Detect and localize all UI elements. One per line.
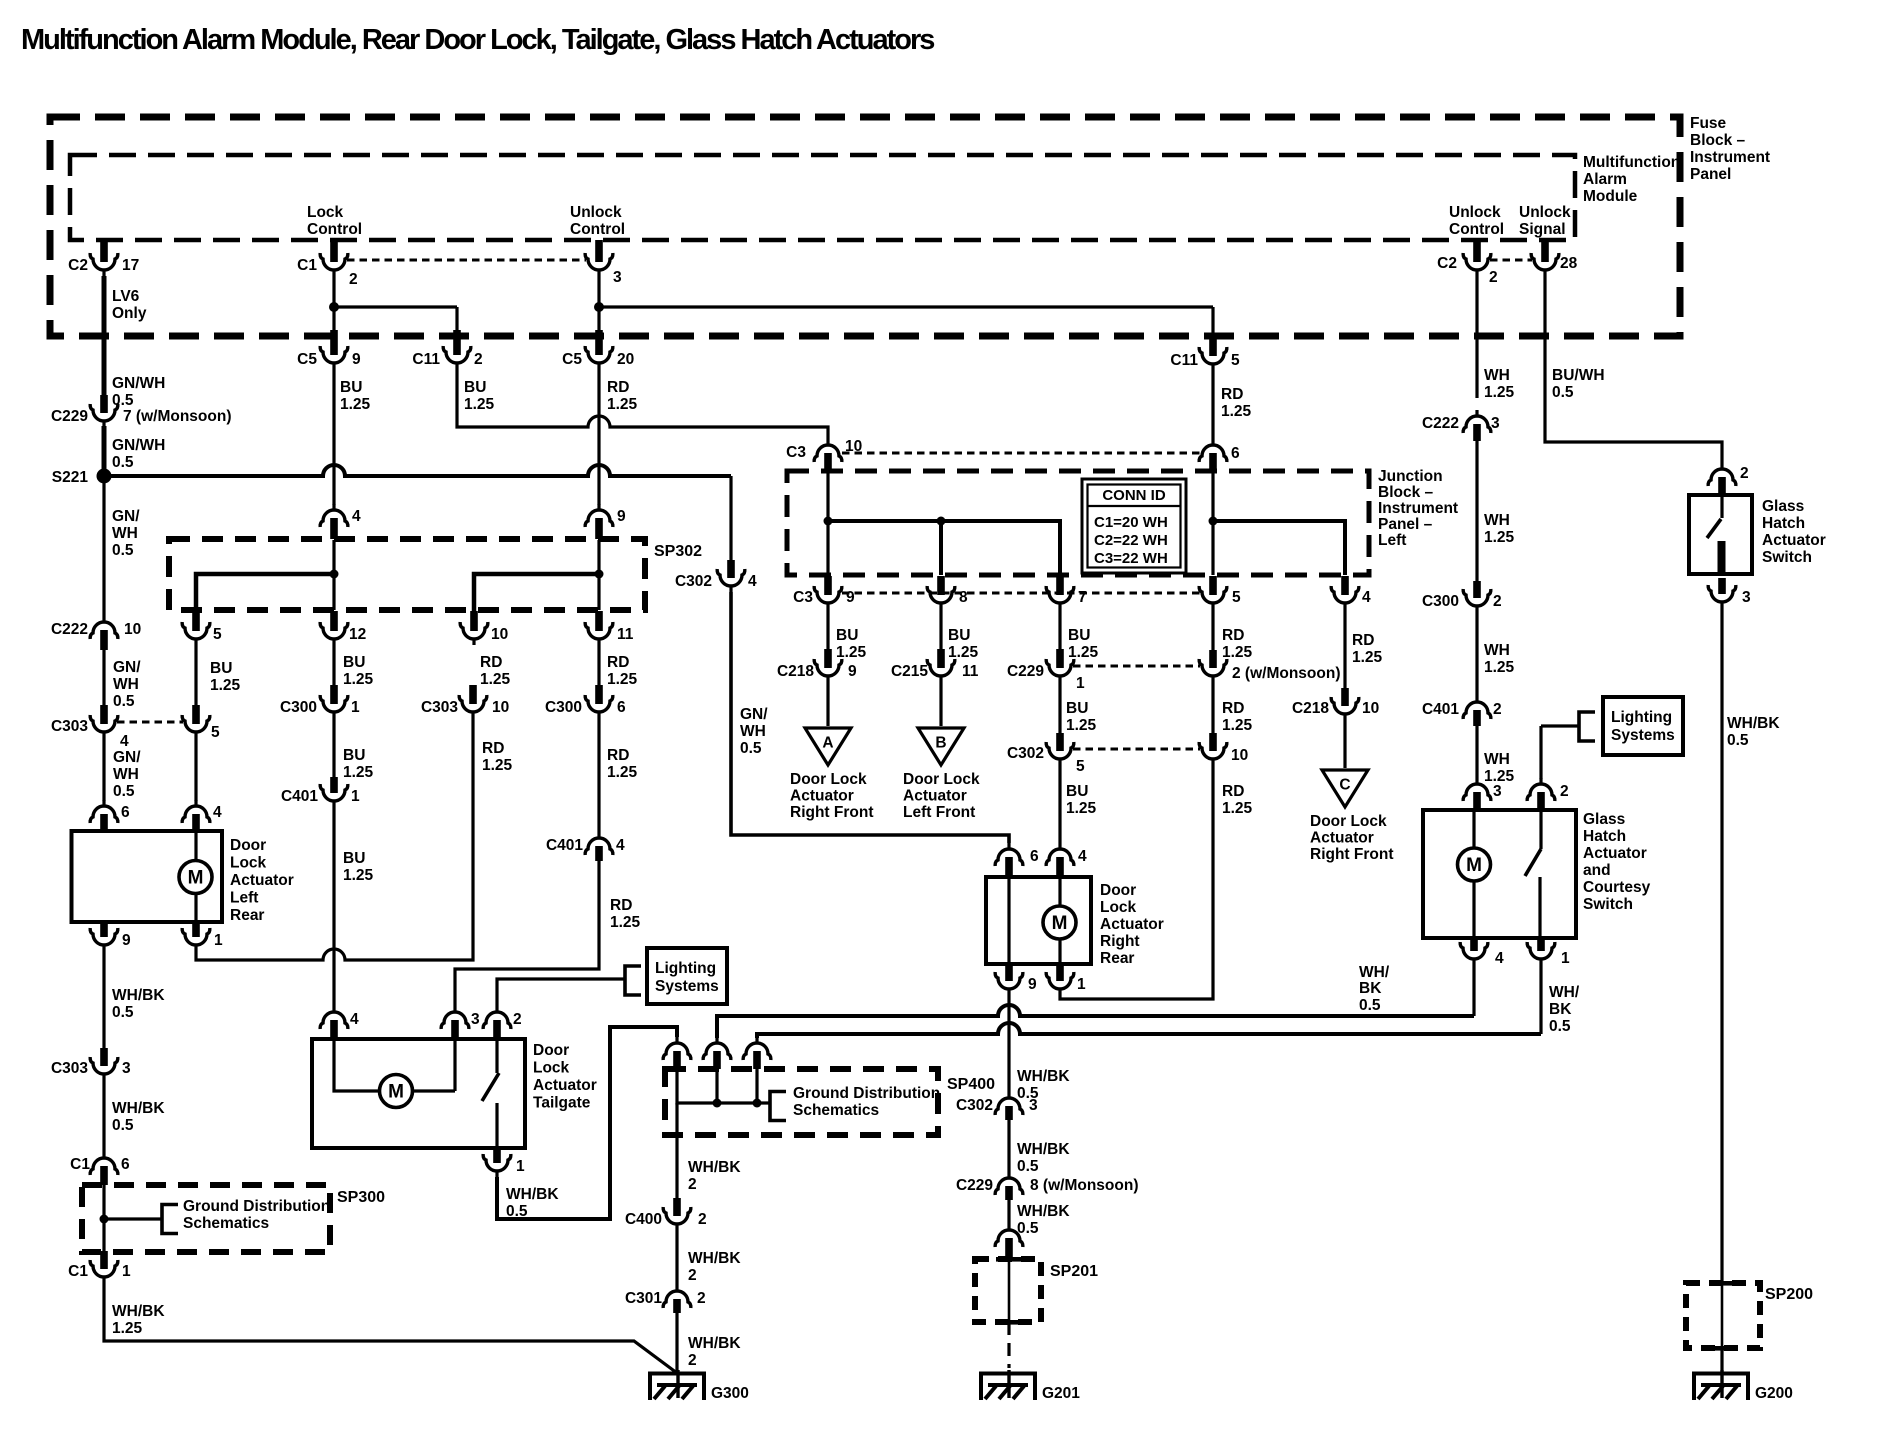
svg-text:Instrument: Instrument — [1378, 500, 1458, 517]
svg-text:9: 9 — [617, 508, 626, 525]
svg-text:RD: RD — [1352, 632, 1374, 649]
svg-text:G300: G300 — [711, 1385, 749, 1402]
svg-text:4: 4 — [350, 1011, 359, 1028]
svg-text:1.25: 1.25 — [343, 671, 374, 688]
svg-text:5: 5 — [211, 724, 220, 741]
svg-text:4: 4 — [748, 573, 757, 590]
svg-text:6: 6 — [121, 1156, 130, 1173]
svg-text:BU: BU — [210, 660, 232, 677]
svg-text:GN/: GN/ — [112, 508, 140, 525]
svg-text:G201: G201 — [1042, 1385, 1080, 1402]
svg-text:C218: C218 — [1292, 700, 1329, 717]
svg-text:1: 1 — [351, 788, 360, 805]
svg-text:0.5: 0.5 — [113, 693, 135, 710]
svg-text:S221: S221 — [52, 469, 89, 486]
svg-text:BU: BU — [340, 379, 362, 396]
svg-text:C302: C302 — [675, 573, 712, 590]
svg-text:Left: Left — [230, 890, 258, 907]
svg-text:10: 10 — [1231, 747, 1248, 764]
svg-text:4: 4 — [213, 804, 222, 821]
svg-text:WH/BK: WH/BK — [1017, 1203, 1070, 1220]
svg-text:Door: Door — [1100, 882, 1136, 899]
svg-text:WH/BK: WH/BK — [1017, 1141, 1070, 1158]
svg-text:Door Lock: Door Lock — [903, 771, 980, 788]
svg-text:WH: WH — [113, 676, 139, 693]
svg-text:9: 9 — [122, 932, 131, 949]
svg-text:C301: C301 — [625, 1290, 662, 1307]
svg-text:1: 1 — [1561, 950, 1570, 967]
svg-text:Signal: Signal — [1519, 221, 1566, 238]
svg-text:RD: RD — [482, 740, 504, 757]
svg-text:GN/WH: GN/WH — [112, 437, 165, 454]
svg-text:7 (w/Monsoon): 7 (w/Monsoon) — [123, 408, 232, 425]
svg-text:Actuator: Actuator — [230, 872, 294, 889]
svg-text:0.5: 0.5 — [1017, 1158, 1039, 1175]
svg-text:Right: Right — [1100, 933, 1140, 950]
svg-text:C300: C300 — [545, 699, 582, 716]
svg-text:3: 3 — [122, 1060, 131, 1077]
svg-text:5: 5 — [1232, 589, 1241, 606]
svg-text:2: 2 — [688, 1267, 697, 1284]
svg-text:Actuator: Actuator — [1100, 916, 1164, 933]
svg-text:C5: C5 — [297, 351, 317, 368]
svg-text:2: 2 — [1740, 465, 1749, 482]
svg-text:4: 4 — [1362, 589, 1371, 606]
svg-text:Door Lock: Door Lock — [1310, 813, 1387, 830]
svg-text:1.25: 1.25 — [1484, 529, 1515, 546]
svg-text:11: 11 — [962, 663, 979, 680]
svg-text:C2=22 WH: C2=22 WH — [1094, 532, 1168, 549]
svg-text:C303: C303 — [51, 718, 88, 735]
svg-text:BU: BU — [343, 747, 365, 764]
svg-text:7: 7 — [1078, 589, 1087, 606]
svg-text:C300: C300 — [280, 699, 317, 716]
svg-text:1.25: 1.25 — [607, 671, 638, 688]
svg-text:Junction: Junction — [1378, 468, 1443, 485]
svg-text:Actuator: Actuator — [1583, 845, 1647, 862]
svg-text:0.5: 0.5 — [1552, 384, 1574, 401]
svg-text:C1: C1 — [70, 1156, 90, 1173]
svg-text:C229: C229 — [51, 408, 88, 425]
svg-text:C302: C302 — [956, 1097, 993, 1114]
svg-text:BU: BU — [1066, 700, 1088, 717]
svg-text:1.25: 1.25 — [836, 644, 867, 661]
svg-text:WH/BK: WH/BK — [112, 987, 165, 1004]
svg-text:C300: C300 — [1422, 593, 1459, 610]
svg-text:C215: C215 — [891, 663, 928, 680]
svg-text:2: 2 — [513, 1011, 522, 1028]
svg-text:C229: C229 — [956, 1177, 993, 1194]
svg-text:6: 6 — [1231, 445, 1240, 462]
svg-text:GN/WH: GN/WH — [112, 375, 165, 392]
svg-text:Actuator: Actuator — [790, 788, 854, 805]
svg-text:C400: C400 — [625, 1211, 662, 1228]
svg-text:10: 10 — [845, 438, 862, 455]
svg-text:4: 4 — [616, 837, 625, 854]
svg-text:Multifunction: Multifunction — [1583, 154, 1680, 171]
svg-text:1.25: 1.25 — [464, 396, 495, 413]
svg-text:Lock: Lock — [1100, 899, 1137, 916]
svg-text:and: and — [1583, 862, 1611, 879]
svg-text:9: 9 — [846, 589, 855, 606]
svg-text:2: 2 — [1493, 701, 1502, 718]
svg-text:2: 2 — [1493, 593, 1502, 610]
svg-text:5: 5 — [1076, 758, 1085, 775]
svg-text:8: 8 — [959, 589, 968, 606]
svg-text:Ground Distribution: Ground Distribution — [793, 1085, 940, 1102]
svg-text:BU/WH: BU/WH — [1552, 367, 1605, 384]
svg-text:1.25: 1.25 — [343, 764, 374, 781]
svg-text:1.25: 1.25 — [1066, 800, 1097, 817]
svg-text:Multifunction Alarm Module, Re: Multifunction Alarm Module, Rear Door Lo… — [21, 24, 934, 56]
svg-text:SP400: SP400 — [947, 1076, 995, 1093]
svg-text:WH/BK: WH/BK — [112, 1100, 165, 1117]
svg-text:1.25: 1.25 — [948, 644, 979, 661]
svg-text:Tailgate: Tailgate — [533, 1095, 591, 1112]
svg-text:1.25: 1.25 — [1068, 644, 1099, 661]
svg-text:3: 3 — [471, 1011, 480, 1028]
svg-text:Rear: Rear — [230, 907, 264, 924]
svg-text:BU: BU — [464, 379, 486, 396]
svg-text:Fuse: Fuse — [1690, 115, 1727, 132]
svg-text:1.25: 1.25 — [1484, 659, 1515, 676]
svg-text:0.5: 0.5 — [112, 542, 134, 559]
svg-text:1.25: 1.25 — [210, 677, 241, 694]
svg-text:Actuator: Actuator — [1762, 532, 1826, 549]
svg-text:BU: BU — [343, 850, 365, 867]
svg-text:1.25: 1.25 — [607, 764, 638, 781]
svg-text:Only: Only — [112, 305, 147, 322]
svg-text:0.5: 0.5 — [112, 454, 134, 471]
svg-text:2: 2 — [349, 271, 358, 288]
svg-text:C1: C1 — [68, 1263, 88, 1280]
svg-text:1: 1 — [122, 1263, 131, 1280]
svg-text:1: 1 — [1077, 976, 1086, 993]
svg-text:BK: BK — [1359, 980, 1382, 997]
svg-text:1.25: 1.25 — [480, 671, 511, 688]
svg-text:B: B — [935, 735, 946, 752]
svg-text:1.25: 1.25 — [1066, 717, 1097, 734]
svg-text:0.5: 0.5 — [112, 1117, 134, 1134]
svg-text:C401: C401 — [1422, 701, 1459, 718]
svg-text:WH/: WH/ — [1549, 984, 1580, 1001]
svg-text:Schematics: Schematics — [793, 1102, 879, 1119]
svg-text:Right Front: Right Front — [790, 804, 874, 821]
svg-text:2 (w/Monsoon): 2 (w/Monsoon) — [1232, 665, 1341, 682]
svg-text:WH/BK: WH/BK — [1727, 715, 1780, 732]
svg-text:WH/BK: WH/BK — [688, 1159, 741, 1176]
svg-text:Hatch: Hatch — [1762, 515, 1805, 532]
svg-text:WH/BK: WH/BK — [688, 1250, 741, 1267]
svg-text:RD: RD — [1222, 783, 1244, 800]
svg-text:0.5: 0.5 — [112, 392, 134, 409]
svg-text:1.25: 1.25 — [112, 1320, 143, 1337]
svg-text:10: 10 — [492, 699, 509, 716]
svg-text:11: 11 — [617, 626, 634, 643]
svg-text:1.25: 1.25 — [1352, 649, 1383, 666]
svg-text:Unlock: Unlock — [1449, 204, 1501, 221]
svg-text:1.25: 1.25 — [610, 914, 641, 931]
svg-text:C1: C1 — [297, 257, 317, 274]
svg-text:2: 2 — [688, 1352, 697, 1369]
svg-text:4: 4 — [352, 508, 361, 525]
svg-text:1: 1 — [1076, 675, 1085, 692]
svg-text:RD: RD — [1222, 700, 1244, 717]
svg-text:Lock: Lock — [230, 855, 267, 872]
svg-text:C401: C401 — [546, 837, 583, 854]
svg-text:Schematics: Schematics — [183, 1215, 269, 1232]
svg-text:BU: BU — [836, 627, 858, 644]
svg-text:1: 1 — [351, 699, 360, 716]
svg-text:Systems: Systems — [1611, 727, 1675, 744]
svg-text:2: 2 — [698, 1211, 707, 1228]
svg-text:12: 12 — [349, 626, 366, 643]
svg-text:9: 9 — [1028, 976, 1037, 993]
svg-text:Rear: Rear — [1100, 950, 1134, 967]
svg-text:RD: RD — [607, 654, 629, 671]
svg-text:WH: WH — [1484, 642, 1510, 659]
svg-text:Control: Control — [1449, 221, 1504, 238]
svg-text:LV6: LV6 — [112, 288, 140, 305]
svg-text:6: 6 — [617, 699, 626, 716]
svg-text:Lock: Lock — [307, 204, 344, 221]
svg-text:Block –: Block – — [1690, 132, 1746, 149]
svg-text:10: 10 — [491, 626, 508, 643]
svg-text:Unlock: Unlock — [570, 204, 622, 221]
svg-text:M: M — [188, 868, 204, 889]
svg-text:WH: WH — [740, 723, 766, 740]
svg-text:1.25: 1.25 — [482, 757, 513, 774]
svg-text:M: M — [388, 1082, 404, 1103]
svg-text:WH/BK: WH/BK — [1017, 1068, 1070, 1085]
svg-text:RD: RD — [480, 654, 502, 671]
svg-text:SP300: SP300 — [337, 1189, 385, 1206]
svg-text:17: 17 — [122, 257, 139, 274]
svg-text:5: 5 — [1231, 352, 1240, 369]
svg-text:5: 5 — [213, 626, 222, 643]
svg-text:Lock: Lock — [533, 1060, 570, 1077]
svg-text:C401: C401 — [281, 788, 318, 805]
svg-text:Instrument: Instrument — [1690, 149, 1770, 166]
svg-text:C302: C302 — [1007, 745, 1044, 762]
svg-text:Right Front: Right Front — [1310, 846, 1394, 863]
svg-text:C2: C2 — [68, 257, 88, 274]
svg-text:Courtesy: Courtesy — [1583, 879, 1651, 896]
svg-text:1.25: 1.25 — [343, 867, 374, 884]
svg-text:3: 3 — [1493, 783, 1502, 800]
svg-text:BK: BK — [1549, 1001, 1572, 1018]
svg-text:BU: BU — [343, 654, 365, 671]
svg-text:Module: Module — [1583, 188, 1638, 205]
svg-text:Block –: Block – — [1378, 484, 1434, 501]
svg-text:1: 1 — [516, 1158, 525, 1175]
svg-text:1.25: 1.25 — [1222, 800, 1253, 817]
svg-text:WH: WH — [1484, 751, 1510, 768]
svg-text:C11: C11 — [1170, 352, 1198, 369]
svg-text:RD: RD — [607, 747, 629, 764]
svg-text:3: 3 — [1742, 589, 1751, 606]
svg-text:Door: Door — [230, 837, 266, 854]
svg-text:9: 9 — [352, 351, 361, 368]
svg-text:GN/: GN/ — [113, 659, 141, 676]
svg-text:1.25: 1.25 — [1222, 717, 1253, 734]
svg-text:Switch: Switch — [1583, 896, 1633, 913]
svg-text:Door: Door — [533, 1042, 569, 1059]
svg-text:Panel: Panel — [1690, 166, 1731, 183]
svg-text:SP200: SP200 — [1765, 1286, 1813, 1303]
svg-text:4: 4 — [120, 733, 129, 750]
svg-text:20: 20 — [617, 351, 634, 368]
svg-text:3: 3 — [1491, 415, 1500, 432]
svg-text:C3=22 WH: C3=22 WH — [1094, 550, 1168, 567]
svg-text:WH/BK: WH/BK — [506, 1186, 559, 1203]
svg-text:C222: C222 — [51, 621, 88, 638]
svg-text:Actuator: Actuator — [903, 788, 967, 805]
svg-text:WH/: WH/ — [1359, 964, 1390, 981]
svg-text:A: A — [822, 735, 833, 752]
svg-text:Glass: Glass — [1762, 498, 1804, 515]
svg-text:Systems: Systems — [655, 978, 719, 995]
svg-text:0.5: 0.5 — [740, 740, 762, 757]
svg-text:C303: C303 — [421, 699, 458, 716]
svg-text:C229: C229 — [1007, 663, 1044, 680]
svg-text:WH/BK: WH/BK — [112, 1303, 165, 1320]
svg-text:CONN ID: CONN ID — [1102, 487, 1166, 504]
svg-text:G200: G200 — [1755, 1385, 1793, 1402]
svg-text:Control: Control — [307, 221, 362, 238]
svg-text:Panel –: Panel – — [1378, 516, 1433, 533]
svg-text:10: 10 — [124, 621, 141, 638]
svg-text:Actuator: Actuator — [1310, 830, 1374, 847]
svg-text:RD: RD — [607, 379, 629, 396]
svg-text:0.5: 0.5 — [1017, 1220, 1039, 1237]
svg-text:RD: RD — [610, 897, 632, 914]
svg-text:Unlock: Unlock — [1519, 204, 1571, 221]
svg-text:M: M — [1466, 855, 1482, 876]
svg-text:WH/BK: WH/BK — [688, 1335, 741, 1352]
svg-text:GN/: GN/ — [740, 706, 768, 723]
svg-text:Door Lock: Door Lock — [790, 771, 867, 788]
svg-text:WH: WH — [113, 766, 139, 783]
svg-text:0.5: 0.5 — [1727, 732, 1749, 749]
svg-text:Lighting: Lighting — [655, 960, 716, 977]
svg-text:2: 2 — [1560, 783, 1569, 800]
svg-text:6: 6 — [121, 804, 130, 821]
svg-text:Glass: Glass — [1583, 811, 1625, 828]
svg-text:C11: C11 — [412, 351, 440, 368]
svg-text:10: 10 — [1362, 700, 1379, 717]
svg-text:1: 1 — [214, 932, 223, 949]
svg-text:6: 6 — [1030, 848, 1039, 865]
svg-text:1.25: 1.25 — [1484, 384, 1515, 401]
svg-text:Actuator: Actuator — [533, 1077, 597, 1094]
svg-text:Lighting: Lighting — [1611, 709, 1672, 726]
svg-text:M: M — [1052, 913, 1068, 934]
svg-text:BU: BU — [948, 627, 970, 644]
svg-text:C3: C3 — [786, 444, 806, 461]
svg-text:Alarm: Alarm — [1583, 171, 1627, 188]
svg-text:SP302: SP302 — [654, 543, 702, 560]
svg-text:C5: C5 — [562, 351, 582, 368]
svg-text:8 (w/Monsoon): 8 (w/Monsoon) — [1030, 1177, 1139, 1194]
svg-text:Left: Left — [1378, 532, 1406, 549]
svg-text:SP201: SP201 — [1050, 1263, 1098, 1280]
svg-text:9: 9 — [848, 663, 857, 680]
svg-text:0.5: 0.5 — [113, 783, 135, 800]
svg-text:0.5: 0.5 — [1359, 997, 1381, 1014]
svg-text:C: C — [1339, 777, 1350, 794]
svg-text:C222: C222 — [1422, 415, 1459, 432]
svg-text:WH: WH — [1484, 512, 1510, 529]
svg-text:C303: C303 — [51, 1060, 88, 1077]
svg-text:RD: RD — [1222, 627, 1244, 644]
svg-text:WH: WH — [112, 525, 138, 542]
svg-text:C218: C218 — [777, 663, 814, 680]
svg-text:28: 28 — [1560, 255, 1578, 272]
svg-text:RD: RD — [1221, 386, 1243, 403]
svg-text:3: 3 — [613, 269, 622, 286]
svg-text:Control: Control — [570, 221, 625, 238]
svg-text:WH: WH — [1484, 367, 1510, 384]
svg-text:4: 4 — [1078, 848, 1087, 865]
svg-text:3: 3 — [1029, 1097, 1038, 1114]
svg-text:2: 2 — [688, 1176, 697, 1193]
svg-text:2: 2 — [474, 351, 483, 368]
svg-text:1.25: 1.25 — [340, 396, 371, 413]
svg-text:C2: C2 — [1437, 255, 1457, 272]
svg-text:Hatch: Hatch — [1583, 828, 1626, 845]
svg-text:1.25: 1.25 — [1221, 403, 1252, 420]
svg-text:1.25: 1.25 — [607, 396, 638, 413]
svg-text:BU: BU — [1068, 627, 1090, 644]
svg-text:2: 2 — [697, 1290, 706, 1307]
svg-text:Left Front: Left Front — [903, 804, 975, 821]
svg-text:0.5: 0.5 — [112, 1004, 134, 1021]
svg-text:0.5: 0.5 — [506, 1203, 528, 1220]
svg-text:Ground Distribution: Ground Distribution — [183, 1198, 330, 1215]
svg-text:BU: BU — [1066, 783, 1088, 800]
svg-text:1.25: 1.25 — [1222, 644, 1253, 661]
svg-text:0.5: 0.5 — [1549, 1018, 1571, 1035]
svg-text:Switch: Switch — [1762, 549, 1812, 566]
svg-text:GN/: GN/ — [113, 749, 141, 766]
svg-text:C1=20 WH: C1=20 WH — [1094, 514, 1168, 531]
svg-text:2: 2 — [1489, 269, 1498, 286]
svg-text:C3: C3 — [793, 589, 813, 606]
svg-text:4: 4 — [1495, 950, 1504, 967]
